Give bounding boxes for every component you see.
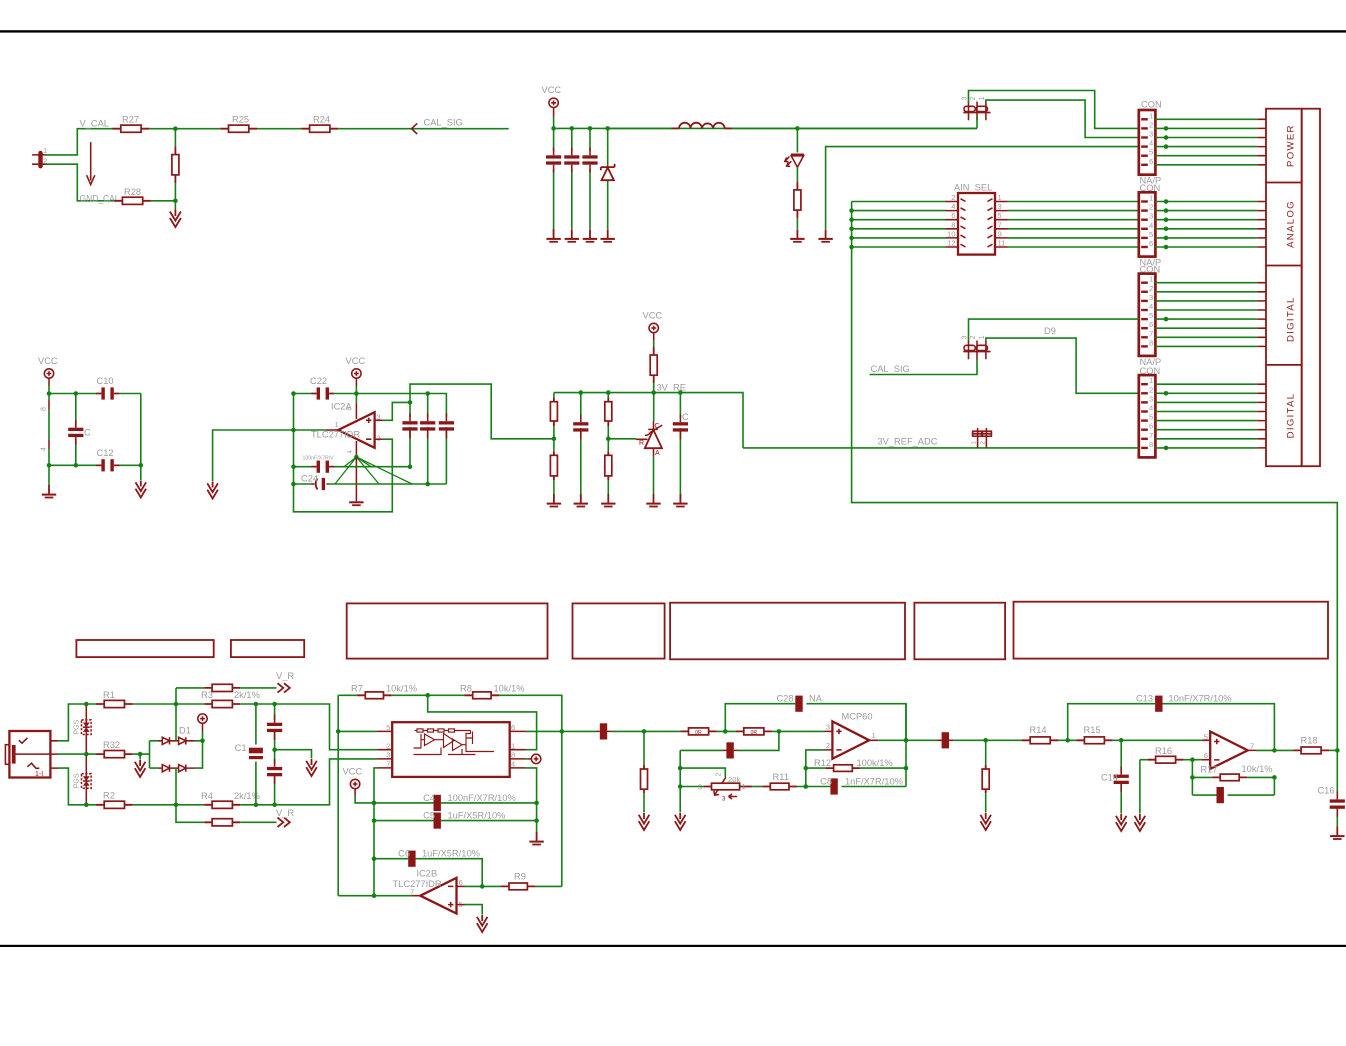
svg-text:2: 2 [1149,385,1153,394]
svg-text:6: 6 [1149,320,1153,329]
svg-text:C: C [655,423,660,430]
svg-text:NA: NA [809,694,823,704]
resistor R17 [1192,764,1272,781]
wire 3V_REF_ADC [743,447,1139,449]
svg-text:3: 3 [998,202,1002,211]
junction dots VCC rail [551,126,556,131]
svg-text:1: 1 [1149,376,1153,385]
wire R17 column [1191,760,1193,795]
empty box 1 [76,640,213,657]
capacitor C6 [374,849,482,887]
bus AIN_SEL to right edge [852,202,1338,751]
resistor R2 [96,791,133,809]
net arrow CAL_SIG [412,123,418,134]
svg-text:V_R: V_R [276,671,294,681]
wire D9 pin1 to CON4 pin2 [986,338,1139,393]
ground [818,229,832,242]
ground GNDA (arrow) [207,482,218,499]
resistor (V_R lower) [204,819,276,826]
svg-text:7: 7 [1149,329,1153,338]
wire IC2A +in (pin3) [375,419,383,421]
svg-text:TLC277IDR: TLC277IDR [311,430,360,440]
capacitor (3V_RE filter 1) [573,393,588,500]
wire J1 sleeve to R2 row [58,768,96,805]
svg-text:3: 3 [1149,212,1153,221]
connector CON1 [1139,100,1162,186]
resistor R1 [96,690,133,708]
connector CON3 [1139,265,1161,367]
ground [583,229,597,242]
svg-text:2: 2 [970,96,977,100]
svg-text:10k/1%: 10k/1% [1242,764,1273,774]
node junction R27/R26 [173,126,178,131]
resistor (LED series) [794,182,801,229]
capacitor C8 [820,777,906,795]
wire R8 to feedback column [499,695,562,886]
capacitor (array 3) [439,413,454,484]
resistor (divider 2 bottom) [605,451,612,494]
TVS PGS (upper) [74,704,92,754]
svg-text:7: 7 [1149,431,1153,440]
wire MCP60 pin stubs [825,731,878,750]
capacitor C5 [374,811,537,829]
ground (IC2A) [355,457,357,501]
empty box 6 [914,603,1005,660]
svg-text:C14: C14 [1101,772,1118,782]
svg-text:3: 3 [962,335,969,339]
wire IC2A output (pin1) [326,429,338,431]
node junction R26/R28 [173,199,178,204]
wire C22 to VCC node rail [333,394,446,417]
wires CON1 to POWER header [1155,119,1266,165]
capacitor pair (input filter top) [267,704,282,750]
svg-text:R27: R27 [122,115,139,125]
svg-text:2: 2 [1149,120,1153,129]
resistor R8 [460,684,525,699]
net arrow V_R (lower) [278,818,290,827]
op-amp IC2B [393,869,463,914]
resistor R14 [1022,725,1058,744]
wire IC2A -in (pin2) feedback loop [375,438,383,440]
wires AIN_SEL left bus [852,202,946,248]
svg-text:2: 2 [377,434,381,443]
svg-text:10k/1%: 10k/1% [386,684,417,694]
wire R17 to output column [1247,776,1274,778]
svg-text:GND_CAL: GND_CAL [80,194,120,204]
wire SJ1 pin3 to CON1 pin2 [969,91,1139,129]
svg-text:1: 1 [979,335,986,339]
svg-text:C10: C10 [97,376,114,386]
svg-text:3: 3 [1149,394,1153,403]
svg-text:4: 4 [1149,221,1153,230]
wire IC1 pin4 to C4/C5 gnd column [526,768,537,832]
resistor R25 [220,115,257,133]
empty box 5 [670,603,905,660]
wire 3V_RE rail [554,393,743,448]
svg-text:C6: C6 [398,849,410,859]
wire R18 to right edge column [1329,749,1337,751]
wire V_R upper branch [175,688,177,741]
wire VCC rail [554,127,977,129]
svg-text:D9: D9 [1044,326,1056,336]
wire IC2B +in to ground [457,904,465,906]
svg-text:8: 8 [41,407,48,411]
svg-text:2: 2 [970,335,977,339]
wire left feedback column [337,695,339,895]
svg-text:C13: C13 [1136,694,1153,704]
ground [673,494,687,507]
wire R27 to node [149,128,220,130]
svg-text:R18: R18 [1301,736,1318,746]
svg-text:2: 2 [826,741,830,750]
resistor R28 [114,187,151,205]
resistor R3 [201,690,260,708]
IC AIN_SEL [946,183,1008,255]
svg-text:C24: C24 [301,474,318,484]
ground [547,494,561,507]
wire 0R to 0R [717,730,736,732]
svg-text:6: 6 [951,211,955,220]
svg-text:C22: C22 [310,376,327,386]
svg-text:R3: R3 [201,690,213,700]
frame top rule [0,30,1346,32]
resistor R15 [1076,725,1112,744]
svg-text:1uF/X5R/10%: 1uF/X5R/10% [422,849,480,859]
header frame POWER/ANALOG/DIGITAL [1266,109,1320,467]
svg-text:8: 8 [1149,440,1153,449]
capacitor C28 [725,694,906,741]
wire J1 tip to R1 row [58,704,96,741]
capacitor C1 [235,704,263,805]
resistor (VCC to 3V_RE) [650,347,657,393]
ferrite bead (guard) [726,742,733,758]
svg-text:7: 7 [998,220,1002,229]
svg-text:C28: C28 [776,694,793,704]
svg-text:C: C [84,428,91,438]
svg-text:VCC: VCC [343,767,363,777]
resistor R4 [201,791,260,808]
capacitor NA (parallel R17) [1192,777,1274,803]
ground GNDA (arrow) [136,481,147,498]
svg-text:3: 3 [962,96,969,100]
svg-text:3: 3 [1149,130,1153,139]
svg-text:1uF/X5R/10%: 1uF/X5R/10% [448,811,506,821]
ground GNDA (arrow) [980,813,991,830]
resistor (divider 2 top) [605,393,612,452]
svg-text:AIN_SEL: AIN_SEL [954,183,992,193]
wire +in node to divider tap [410,384,554,439]
wire -in guard row [680,731,779,750]
svg-text:11: 11 [998,239,1006,248]
ground GNDA (arrow) [306,759,317,776]
wire pot row [680,786,703,788]
wire R9 to feedback column [535,885,561,887]
empty box 7 [1014,602,1329,659]
resistor R24 [301,115,338,133]
wire GND_CAL from X1 pin2 [45,164,117,201]
svg-text:R25: R25 [232,115,249,125]
svg-text:R8: R8 [460,684,472,694]
wire R28 to node [151,200,176,202]
capacitor 100nF (IC2A supply) [294,456,411,473]
wire bead to 0R stage [611,730,680,732]
svg-text:R14: R14 [1030,725,1047,735]
svg-text:6: 6 [1149,157,1153,166]
ground [574,494,588,507]
svg-text:1: 1 [1149,194,1153,203]
svg-text:1-I: 1-I [35,771,43,778]
wire CAL_SIG [338,128,509,130]
resistor R16 [1148,746,1184,763]
diode network D1 [150,726,205,772]
capacitor (filter 3) [589,128,591,229]
wire V_R lower branch [176,805,204,823]
svg-text:PGS: PGS [74,719,81,734]
svg-text:R17: R17 [1200,765,1217,775]
wire decoupling bottom rail [49,464,141,466]
resistor R11 [762,772,797,790]
svg-text:R2: R2 [103,791,115,801]
svg-text:2: 2 [1149,284,1153,293]
svg-text:4: 4 [951,202,955,211]
wire IC2B output [413,895,421,897]
wire IC1 pin7 to VCC node [374,768,377,803]
svg-text:5: 5 [1149,230,1153,239]
svg-text:C4: C4 [423,793,435,803]
svg-text:5: 5 [998,211,1002,220]
wire R4 to pin3 drop [240,759,377,805]
svg-text:2: 2 [951,193,955,202]
svg-text:DIGITAL: DIGITAL [1286,393,1297,439]
audio jack J1 [5,731,58,778]
resistor (V_R upper) [176,684,277,691]
svg-text:1: 1 [872,731,876,740]
resistor R7 [338,684,417,699]
capacitor (filter 1) [553,128,555,229]
ground (IC1) [529,832,543,845]
svg-text:R32: R32 [103,740,120,750]
wire R32 to bridge [133,753,150,755]
connector X1 (2-pin cal input) [32,146,47,168]
svg-text:9: 9 [998,229,1002,238]
resistor (shunt at 985.7) [982,740,989,812]
svg-text:C: C [682,412,689,422]
capacitor C12 [96,448,119,471]
wires CON4 to DIGITAL header 2 [1155,384,1266,450]
wire rail to L1 [608,127,672,129]
svg-text:4: 4 [41,447,48,451]
op-amp IC3 [1204,732,1254,769]
wire wiper row [680,768,725,777]
svg-text:7: 7 [1250,742,1254,751]
svg-text:C1: C1 [235,743,247,753]
svg-text:TLC277IDR: TLC277IDR [393,879,442,889]
capacitor C24 [294,474,447,491]
svg-text:CAL_SIG: CAL_SIG [871,364,910,374]
wire R3 to pin2 drop [240,704,377,750]
svg-text:R11: R11 [773,772,789,782]
terminal + (clamp supply) [202,731,204,741]
capacitor pair (input filter bottom) [267,750,282,805]
IC1 (iso amplifier) [377,722,525,777]
ground [601,494,615,507]
svg-text:1: 1 [1149,275,1153,284]
ground GNDA (arrow) [675,813,686,830]
wire L1 to CON [732,127,977,129]
resistor (divider 1 top) [550,393,557,452]
svg-text:DIGITAL: DIGITAL [1286,296,1297,342]
svg-text:3V_REF_ADC: 3V_REF_ADC [878,437,938,447]
wire rail up to SJ1 pin2 [976,117,978,128]
wire bead to R14 [953,739,1022,741]
svg-text:C16: C16 [1317,786,1334,796]
svg-text:5: 5 [1149,311,1153,320]
svg-text:5: 5 [1149,148,1153,157]
solder jumper SJ2 [972,428,993,448]
svg-text:R28: R28 [124,187,141,197]
trimmer R?? 20k [698,773,753,803]
svg-text:6: 6 [1149,422,1153,431]
resistor (divider 1 bottom) [550,451,557,494]
svg-text:VCC: VCC [643,311,663,321]
svg-text:12: 12 [947,239,955,248]
capacitor C22 [294,376,335,400]
empty box 2 [231,640,304,657]
resistor 0R (1) [680,728,717,736]
ground [646,494,660,507]
solder jumper D9 [962,335,991,359]
inductor L1 [672,123,733,129]
svg-text:R4: R4 [201,791,213,801]
wires AIN_SEL to CON2 [1008,202,1139,248]
svg-text:R24: R24 [313,115,330,125]
ferrite bead (signal 2) [942,732,949,748]
wire R11 to C8 node [797,786,830,788]
svg-text:C12: C12 [97,448,114,458]
svg-text:1: 1 [43,146,47,155]
connector CON2 [1139,183,1161,268]
wire decoupling top rail [49,393,141,395]
wire IC2B -in / R9 row [457,885,465,887]
svg-text:CON: CON [1141,100,1162,110]
shunt regulator (TL431) [608,393,662,494]
svg-text:1: 1 [979,96,986,100]
wire fan at IC2A gnd node [335,457,412,484]
wire IC1 pin5 to feedback column [338,730,377,732]
svg-text:POWER: POWER [1286,124,1297,167]
resistor R18 [1293,736,1329,754]
wire R7 to R8 [392,694,465,696]
ground GNDA (arrow) [1116,814,1127,831]
wire R14 to R15 [1058,739,1076,741]
wire IC1 pin6 signal row [526,730,597,732]
resistor (shunt at 644) [641,731,648,812]
IC2A power pin 8 [355,394,357,404]
wire op-amp output row [1256,749,1293,751]
svg-text:2: 2 [1149,203,1153,212]
svg-text:R12: R12 [814,758,831,768]
resistor 0R (2) [736,728,773,736]
wire SJ1 pin1 to CON1 pin3 [986,100,1139,137]
svg-text:4: 4 [1149,404,1153,413]
svg-text:CAL_SIG: CAL_SIG [424,118,463,128]
svg-text:6: 6 [1204,751,1208,760]
capacitor (filter 2) [571,128,573,229]
svg-text:4: 4 [1149,302,1153,311]
svg-text:C8: C8 [820,777,832,787]
ground [42,485,56,498]
svg-text:3: 3 [826,723,830,732]
wire V_CAL from X1 pin1 [45,129,116,155]
svg-text:VCC: VCC [346,356,366,366]
wire VCC column down to IC2B output row [373,803,375,896]
svg-text:VCC: VCC [38,356,58,366]
wire R16 row [1140,759,1148,761]
svg-text:8: 8 [1149,338,1153,347]
capacitor C10 [96,376,119,400]
ground [790,229,804,242]
wire R2 to R4 [133,804,205,806]
svg-text:IC2B: IC2B [417,869,438,879]
svg-text:100nF/X7R/V: 100nF/X7R/V [303,456,335,462]
svg-text:8: 8 [951,220,955,229]
svg-text:R9: R9 [514,872,526,882]
resistor R26 (vertical) [172,129,179,201]
svg-text:R15: R15 [1084,725,1101,735]
wires CON2 to ANALOG header [1155,199,1266,249]
capacitor C (3V_RE filter 2) [673,393,689,500]
capacitor C14 [1101,740,1129,813]
svg-text:1: 1 [998,193,1002,202]
ground [601,229,615,242]
svg-text:R7: R7 [351,684,363,694]
svg-text:R16: R16 [1155,746,1172,756]
wire R15 to op-amp +in [1113,739,1202,741]
svg-text:PGS: PGS [74,773,81,788]
svg-text:C5: C5 [423,811,435,821]
svg-text:D1: D1 [179,726,191,736]
net arrow V_R (upper) [278,683,290,692]
wire filter mid to ground [275,750,312,759]
svg-text:2k/1%: 2k/1% [234,690,260,700]
capacitor (array 1) [402,402,417,466]
ground GNDA (arrow) [639,813,650,830]
ground [1330,827,1344,840]
svg-text:R: R [639,440,644,447]
wire bridge mid to R2 row [175,768,177,805]
current arrow [87,142,95,185]
svg-text:1: 1 [1149,111,1153,120]
capacitor C (mid) [68,394,91,466]
ferrite bead (signal 1) [600,723,607,739]
svg-text:ANALOG: ANALOG [1286,200,1297,248]
svg-text:0R: 0R [750,730,757,736]
wire CON1 pin4 to ground column [826,147,1139,229]
capacitor C4 [374,793,537,811]
resistor R32 [96,740,133,758]
wire R7/R8 tap to IC pin1 [428,695,537,749]
resistor R12 [806,758,893,771]
svg-text:100nF/X7R/10%: 100nF/X7R/10% [448,793,516,803]
wire output column [905,704,907,787]
svg-text:1nF/X7R/10%: 1nF/X7R/10% [845,777,903,787]
ground [565,229,579,242]
frame bottom rule [0,945,1346,947]
resistor R9 [501,872,535,890]
svg-text:0R: 0R [695,730,702,736]
capacitor (array 2) [420,394,435,485]
wire 0R to MCP60 +in [772,730,824,732]
